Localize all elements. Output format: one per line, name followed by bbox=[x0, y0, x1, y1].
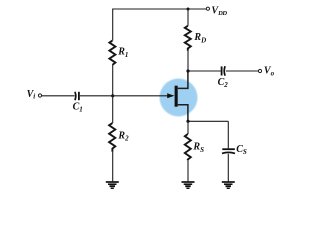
wire drain to C2 bbox=[188, 70, 221, 72]
svg-text:C1: C1 bbox=[73, 101, 83, 113]
resistor R1 bbox=[109, 41, 115, 65]
wire RD top lead bbox=[187, 9, 189, 26]
ground left bbox=[106, 182, 119, 188]
resistor RD bbox=[185, 26, 191, 51]
node top junction bbox=[187, 8, 190, 11]
wire R1 top lead bbox=[112, 9, 114, 41]
wire C2 to Vo bbox=[226, 70, 258, 72]
terminal VDD bbox=[206, 7, 209, 10]
node drain junction bbox=[186, 69, 189, 72]
svg-text:R1: R1 bbox=[117, 46, 128, 59]
svg-text:Vo: Vo bbox=[264, 66, 275, 78]
wire RD bottom lead bbox=[187, 51, 189, 71]
wire R2 top lead bbox=[112, 96, 114, 123]
wire RS bottom lead bbox=[187, 160, 189, 181]
transistor Q1 channel bar bbox=[175, 86, 178, 107]
wire top rail bbox=[113, 8, 206, 10]
ground right bbox=[222, 182, 235, 188]
resistor RS bbox=[185, 134, 191, 160]
wire source to RS bbox=[187, 121, 189, 134]
transistor source lead bbox=[178, 105, 188, 122]
resistor R2 bbox=[109, 123, 115, 152]
node source junction bbox=[186, 120, 189, 123]
capacitor C1 bbox=[74, 92, 77, 100]
terminal Vo bbox=[258, 69, 261, 72]
wire C1 to gate junction bbox=[80, 95, 113, 97]
wire R1 bottom lead bbox=[112, 65, 114, 96]
wire gate lead bbox=[113, 95, 168, 97]
svg-text:CS: CS bbox=[236, 144, 247, 156]
wire CS top lead bbox=[227, 121, 229, 148]
ground middle bbox=[182, 182, 195, 188]
svg-text:VDD: VDD bbox=[211, 5, 227, 17]
wire R2 bottom lead bbox=[112, 152, 114, 182]
capacitor C2 bbox=[221, 66, 223, 75]
wire input bbox=[42, 95, 75, 97]
node gate junction bbox=[111, 94, 114, 97]
svg-text:R2: R2 bbox=[117, 130, 129, 142]
transistor drain lead bbox=[178, 71, 188, 88]
wire source to CS bbox=[188, 120, 228, 122]
gate arrowhead bbox=[167, 93, 174, 98]
svg-text:RS: RS bbox=[192, 142, 204, 154]
svg-text:C2: C2 bbox=[218, 77, 229, 89]
svg-text:Vi: Vi bbox=[27, 89, 36, 101]
capacitor CS bbox=[222, 148, 235, 150]
transistor highlight circle bbox=[160, 79, 198, 117]
wire CS bottom lead bbox=[227, 154, 229, 182]
svg-text:RD: RD bbox=[193, 32, 206, 44]
terminal Vi bbox=[38, 94, 41, 97]
